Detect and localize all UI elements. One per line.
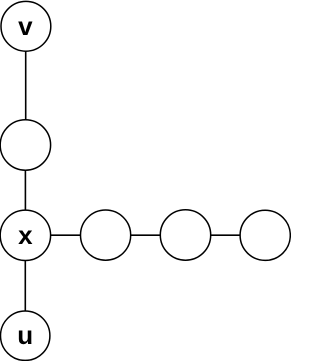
node c (third right circle) (240, 210, 290, 260)
node u (bottom circle) (1, 311, 50, 360)
wire v to w (vertical edge) (25, 26, 27, 145)
wire a to b (horizontal edge) (106, 234, 186, 236)
svg-text:v: v (18, 11, 33, 41)
wire x to a (horizontal edge) (25, 234, 105, 236)
node b (second right circle) (160, 210, 210, 260)
node a (first right circle) (81, 210, 131, 260)
svg-text:x: x (18, 220, 33, 250)
wire b to c (horizontal edge) (186, 234, 266, 236)
node x (junction circle) (0, 210, 50, 260)
node v (top circle) (1, 1, 51, 51)
node w (unlabeled circle below v) (0, 120, 50, 170)
wire w to x (vertical edge) (24, 145, 26, 235)
svg-text:u: u (17, 320, 33, 350)
wire x to u (vertical edge) (24, 235, 26, 336)
